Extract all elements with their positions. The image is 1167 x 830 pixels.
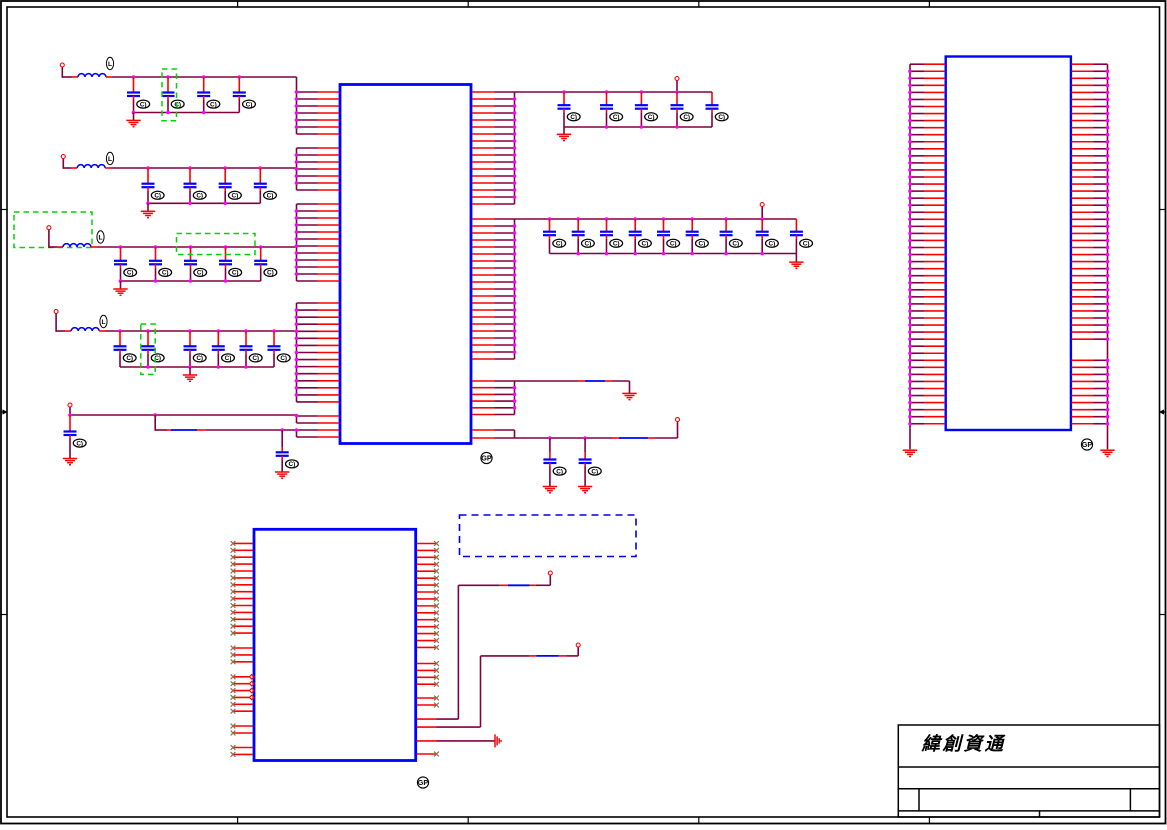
junction xyxy=(908,154,912,158)
terminal P4 xyxy=(54,310,58,314)
junction xyxy=(513,273,517,277)
svg-text:L: L xyxy=(108,61,112,68)
junction xyxy=(908,161,912,165)
U2 pin L5 xyxy=(910,91,924,93)
wire xyxy=(69,407,71,416)
wire bank1 gnd bus xyxy=(564,126,712,128)
svg-text:C): C) xyxy=(174,101,181,108)
junction xyxy=(1106,330,1110,334)
U3 pin L12 no-connect xyxy=(233,618,253,620)
U2 pin L38 xyxy=(910,324,924,326)
border zone tick bottom 2 xyxy=(467,817,469,823)
junction xyxy=(605,90,609,94)
U2 pin L9 xyxy=(910,120,924,122)
selection box green 2 xyxy=(14,212,92,248)
junction xyxy=(189,279,193,283)
junction xyxy=(166,111,170,115)
svg-text:C): C) xyxy=(232,193,239,200)
junction xyxy=(188,202,192,206)
U3 pin L4 no-connect xyxy=(233,563,253,565)
junction xyxy=(295,379,299,383)
U3 pin R1 no-connect xyxy=(417,543,437,545)
U1 pin RD-2 xyxy=(472,437,495,439)
label C26 xyxy=(715,113,728,121)
U3 pin L22 no-connect xyxy=(233,703,253,705)
junction xyxy=(1106,337,1110,341)
U3 reference label GP xyxy=(417,777,428,788)
junction xyxy=(908,330,912,334)
U1 pin RA-10 xyxy=(472,154,495,156)
junction xyxy=(295,386,299,390)
terminal P10 xyxy=(576,643,580,647)
U2 pin L50 xyxy=(910,409,924,411)
U2 pin L4 xyxy=(910,84,924,86)
U2 pin R27 xyxy=(1072,247,1094,249)
U1 pin L4-4 xyxy=(297,323,318,325)
U2 pin L22 xyxy=(910,211,924,213)
U3 pin L1 no-connect xyxy=(233,542,253,544)
junction xyxy=(295,365,299,369)
label C17 xyxy=(222,354,235,362)
junction xyxy=(908,189,912,193)
U2 pin R31 xyxy=(1072,275,1094,277)
svg-text:C): C) xyxy=(769,241,776,248)
U1 pin RB-16 xyxy=(472,323,495,325)
junction xyxy=(295,153,299,157)
wire row5b net xyxy=(155,429,167,431)
U3 pin R5 no-connect xyxy=(417,570,437,572)
junction xyxy=(690,217,694,221)
junction xyxy=(583,436,587,440)
junction xyxy=(513,350,517,354)
border zone tick top 3 xyxy=(698,1,700,7)
junction xyxy=(1106,210,1110,214)
U3 pin L5 no-connect xyxy=(233,570,253,572)
junction xyxy=(908,175,912,179)
junction xyxy=(1106,161,1110,165)
junction xyxy=(513,245,517,249)
junction xyxy=(513,188,517,192)
U2 pin L35 xyxy=(910,303,924,305)
selection box blue xyxy=(460,515,637,557)
junction xyxy=(217,329,221,333)
junction xyxy=(295,344,299,348)
U1 pin RA-9 xyxy=(472,147,495,149)
U1 pin RB-8 xyxy=(472,267,495,269)
junction xyxy=(513,406,517,410)
U2 pin R19 xyxy=(1072,190,1094,192)
border zone tick top 2 xyxy=(467,1,469,7)
junction xyxy=(908,69,912,73)
U2 right rail xyxy=(1107,64,1109,449)
junction xyxy=(295,329,299,333)
U1 pin RB-12 xyxy=(472,295,495,297)
junction xyxy=(1106,408,1110,412)
U1 pin RB-7 xyxy=(472,260,495,262)
junction xyxy=(675,90,679,94)
pin stub xyxy=(72,76,78,78)
svg-text:C): C) xyxy=(670,241,677,248)
wire bank1 net xyxy=(515,91,713,93)
junction xyxy=(1106,394,1110,398)
U3 pin L10 no-connect xyxy=(233,605,253,607)
U1 pin RA-11 xyxy=(472,161,495,163)
svg-text:C): C) xyxy=(289,461,296,468)
capacitor C34 xyxy=(756,219,769,254)
label C21 xyxy=(286,460,299,468)
junction xyxy=(513,252,517,256)
svg-text:C): C) xyxy=(613,241,620,248)
wire xyxy=(536,584,551,586)
U1 reference label GP xyxy=(481,452,492,463)
junction xyxy=(908,203,912,207)
junction xyxy=(1106,182,1110,186)
U2 pin R6 xyxy=(1072,98,1094,100)
U3 pin L26 no-connect xyxy=(233,747,253,749)
label C34 xyxy=(766,239,779,247)
pin stub xyxy=(106,76,112,78)
U1 pin L3-4 xyxy=(297,224,318,226)
U1 right pin group D bus xyxy=(514,430,516,438)
label C10 xyxy=(159,268,172,276)
capacitor C26 xyxy=(706,92,719,127)
U1 pin L4-3 xyxy=(297,316,318,318)
junction xyxy=(1106,154,1110,158)
U1 pin L3-9 xyxy=(297,259,318,261)
label C30 xyxy=(639,239,652,247)
U2 pin R32 xyxy=(1072,282,1094,284)
U3 pin R13 no-connect xyxy=(417,626,437,628)
wire xyxy=(655,437,678,439)
U1 pin L1-6 xyxy=(297,126,318,128)
svg-text:C): C) xyxy=(613,114,620,121)
junction xyxy=(576,217,580,221)
junction xyxy=(513,97,517,101)
svg-text:L: L xyxy=(98,234,102,241)
U3 pin R15 no-connect xyxy=(417,640,437,642)
capacitor C21 xyxy=(276,430,289,472)
capacitor C24 xyxy=(635,92,648,127)
capacitor C6 xyxy=(184,168,197,203)
junction xyxy=(295,237,299,241)
U2 pin R5 xyxy=(1072,91,1094,93)
wire xyxy=(56,330,65,332)
junction xyxy=(244,329,248,333)
selection box green 1 xyxy=(162,69,177,121)
junction xyxy=(908,140,912,144)
U2 pin R13 xyxy=(1072,148,1094,150)
junction xyxy=(908,288,912,292)
junction xyxy=(223,166,227,170)
svg-text:C): C) xyxy=(591,468,598,475)
junction xyxy=(908,387,912,391)
border arrow left middle xyxy=(1,409,8,414)
junction xyxy=(295,372,299,376)
svg-text:C): C) xyxy=(718,114,725,121)
svg-text:C): C) xyxy=(648,114,655,121)
junction xyxy=(295,251,299,255)
U3 pin R2 no-connect xyxy=(417,549,437,551)
junction xyxy=(1106,196,1110,200)
svg-text:C): C) xyxy=(732,241,739,248)
selection box green 3 xyxy=(177,234,256,255)
junction xyxy=(272,329,276,333)
ground xyxy=(275,472,289,478)
U1 pin L1-2 xyxy=(297,98,318,100)
junction xyxy=(1106,98,1110,102)
pin stub xyxy=(91,246,98,248)
junction xyxy=(908,91,912,95)
junction xyxy=(908,126,912,130)
junction xyxy=(760,252,764,256)
junction xyxy=(633,217,637,221)
ground (right-pointing) xyxy=(495,734,501,747)
wire row3 gnd bus xyxy=(121,280,261,282)
junction xyxy=(513,280,517,284)
U3 pin R10 no-connect xyxy=(417,605,437,607)
junction xyxy=(605,217,609,221)
svg-text:C): C) xyxy=(683,114,690,121)
label C15 xyxy=(151,354,164,362)
junction xyxy=(295,167,299,171)
junction xyxy=(724,252,728,256)
label C19 xyxy=(277,354,290,362)
U2 pin L37 xyxy=(910,317,924,319)
U1 pin L4-6 xyxy=(297,337,318,339)
wire xyxy=(677,422,679,438)
U1 pin RB-21 xyxy=(472,358,495,360)
label C29 xyxy=(610,239,623,247)
U3 pin R12 no-connect xyxy=(417,619,437,621)
label C32 xyxy=(696,239,709,247)
svg-text:C): C) xyxy=(196,193,203,200)
wire colored segment xyxy=(499,584,508,586)
label C31 xyxy=(667,239,680,247)
U1 pin RB-1 xyxy=(472,218,495,220)
junction xyxy=(295,393,299,397)
label C27 xyxy=(553,239,566,247)
wire row4 gnd bus xyxy=(120,366,274,368)
junction xyxy=(640,90,644,94)
wire xyxy=(612,380,630,382)
junction xyxy=(605,252,609,256)
label L3 xyxy=(97,231,104,243)
U3 pin R22 no-connect xyxy=(417,704,437,706)
junction xyxy=(1106,366,1110,370)
wire xyxy=(206,429,297,431)
U3 pin L16 no-connect xyxy=(233,654,253,656)
junction xyxy=(908,196,912,200)
U2 pin L30 xyxy=(910,268,924,270)
junction xyxy=(1106,225,1110,229)
junction xyxy=(1106,373,1110,377)
label C9 xyxy=(124,268,137,276)
junction xyxy=(513,224,517,228)
U3 pin R9 no-connect xyxy=(417,598,437,600)
U2 pin L25 xyxy=(910,232,924,234)
svg-text:C): C) xyxy=(76,440,83,447)
junction xyxy=(908,112,912,116)
U2 pin L15 xyxy=(910,162,924,164)
U2 pin R2 xyxy=(1072,70,1094,72)
junction xyxy=(295,358,299,362)
U1 pin RC-6 xyxy=(472,414,495,416)
junction xyxy=(1106,119,1110,123)
label C5 xyxy=(151,191,164,199)
junction xyxy=(1106,380,1110,384)
junction xyxy=(295,111,299,115)
capacitor C8 xyxy=(254,168,267,203)
junction xyxy=(513,132,517,136)
junction xyxy=(513,160,517,164)
U2 pin L24 xyxy=(910,225,924,227)
U2 pin R3 xyxy=(1072,77,1094,79)
U2 pin L3 xyxy=(910,77,924,79)
junction xyxy=(153,413,157,417)
U2 pin L48 xyxy=(910,395,924,397)
U3 pin R6 no-connect xyxy=(417,577,437,579)
wire xyxy=(62,76,72,78)
U3 pin L3 no-connect xyxy=(233,556,253,558)
svg-text:C): C) xyxy=(140,101,147,108)
junction xyxy=(1106,175,1110,179)
ground xyxy=(141,211,155,217)
junction xyxy=(295,308,299,312)
junction xyxy=(908,98,912,102)
label L4 xyxy=(100,315,107,327)
capacitor C2 xyxy=(162,77,175,113)
label C13 xyxy=(264,268,277,276)
junction xyxy=(1106,91,1110,95)
U2 pin L28 xyxy=(910,254,924,256)
junction xyxy=(908,422,912,426)
U2 pin L14 xyxy=(910,155,924,157)
U1 pin L3-2 xyxy=(297,210,318,212)
junction xyxy=(166,75,170,79)
U2 pin R49 xyxy=(1072,402,1094,404)
capacitor C7 xyxy=(219,168,232,203)
U1 left pin group 6 bus xyxy=(296,430,298,437)
label C3 xyxy=(207,100,220,108)
U3 pin R25 xyxy=(417,740,437,742)
capacitor C1 xyxy=(127,77,140,113)
junction xyxy=(908,84,912,88)
junction xyxy=(513,301,517,305)
junction xyxy=(295,258,299,262)
U2 pin L36 xyxy=(910,310,924,312)
junction xyxy=(1106,267,1110,271)
wire xyxy=(676,81,678,93)
U2 pin R29 xyxy=(1072,261,1094,263)
junction xyxy=(132,75,136,79)
junction xyxy=(295,216,299,220)
junction xyxy=(513,174,517,178)
junction xyxy=(154,245,158,249)
U3 pin R4 no-connect xyxy=(417,563,437,565)
U2 pin R30 xyxy=(1072,268,1094,270)
U1 pin RB-4 xyxy=(472,239,495,241)
capacitor C33 xyxy=(720,219,733,254)
U1 pin L4-1 xyxy=(297,302,318,304)
U2 pin R40 xyxy=(1072,338,1094,340)
U1 pin RB-14 xyxy=(472,309,495,311)
U1 pin L6-2 xyxy=(297,436,318,438)
inductor L3 xyxy=(63,244,91,247)
junction xyxy=(238,75,242,79)
label C33 xyxy=(729,239,742,247)
U1 pin L2-7 xyxy=(297,189,318,191)
U2 pin R35 xyxy=(1072,303,1094,305)
wire bank2 gnd bus xyxy=(550,253,797,255)
junction xyxy=(1106,288,1110,292)
U1 pin L3-12 xyxy=(297,280,318,282)
U2 pin R36 xyxy=(1072,310,1094,312)
U2 pin R44 xyxy=(1072,366,1094,368)
U2 pin R34 xyxy=(1072,296,1094,298)
junction xyxy=(513,399,517,403)
U1 pin L6-1 xyxy=(297,429,318,431)
junction xyxy=(724,217,728,221)
junction xyxy=(908,415,912,419)
wire xyxy=(55,314,57,332)
ground xyxy=(1100,450,1114,456)
junction xyxy=(1106,323,1110,327)
U2 pin L21 xyxy=(910,204,924,206)
terminal P5 xyxy=(68,403,72,407)
U2 pin L20 xyxy=(910,197,924,199)
junction xyxy=(908,218,912,222)
junction xyxy=(908,274,912,278)
pin stub xyxy=(57,246,63,248)
svg-text:C): C) xyxy=(126,355,133,362)
U2 pin R51 xyxy=(1072,416,1094,418)
terminal P3 xyxy=(47,226,51,230)
capacitor C36 xyxy=(543,438,556,486)
svg-text:緯創資通: 緯創資通 xyxy=(921,734,1007,755)
ground xyxy=(622,393,636,399)
U2 pin R4 xyxy=(1072,84,1094,86)
wire xyxy=(761,207,763,220)
U3 pin L25 no-connect xyxy=(233,732,253,734)
pin stub xyxy=(71,167,77,169)
U2 reference label GP xyxy=(1081,439,1092,450)
junction xyxy=(295,272,299,276)
svg-text:C): C) xyxy=(225,355,232,362)
capacitor C22 xyxy=(558,92,571,127)
junction xyxy=(295,104,299,108)
junction xyxy=(513,329,517,333)
capacitor C4 xyxy=(233,77,246,113)
ground xyxy=(557,134,571,140)
junction xyxy=(295,223,299,227)
junction xyxy=(513,104,517,108)
capacitor C10 xyxy=(149,247,162,281)
U3 pin R20 no-connect xyxy=(417,683,437,685)
U1 pin L5-2 xyxy=(297,422,318,424)
svg-text:C): C) xyxy=(556,468,563,475)
junction xyxy=(146,365,150,369)
capacitor C27 xyxy=(543,219,556,254)
capacitor C37 xyxy=(579,438,592,486)
junction xyxy=(1106,168,1110,172)
svg-text:C): C) xyxy=(210,101,217,108)
svg-text:C): C) xyxy=(154,193,161,200)
U1 pin L1-3 xyxy=(297,105,318,107)
svg-text:C): C) xyxy=(127,270,134,277)
U2 pin R10 xyxy=(1072,127,1094,129)
junction xyxy=(154,279,158,283)
junction xyxy=(1106,133,1110,137)
